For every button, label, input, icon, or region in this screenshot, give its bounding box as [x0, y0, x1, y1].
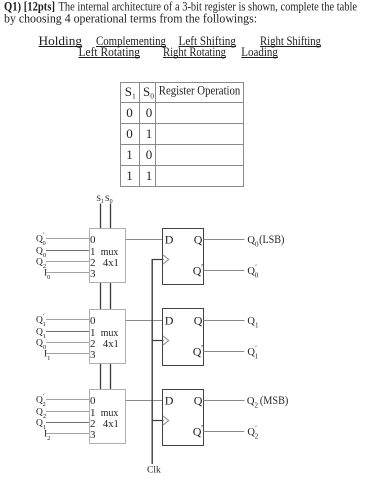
wire Q1 to U2 pin 1 — [46, 331, 90, 333]
term Left Shifting — [179, 34, 237, 48]
D flip-flop FF2 — [163, 390, 204, 446]
node output label Q0(LSB) — [247, 232, 284, 248]
clock triangle FF0 — [163, 255, 169, 264]
svg-text:Q1: Q1 — [247, 316, 259, 330]
node input label Q'0 (mux U1 pin 0) — [36, 233, 46, 247]
wire U2 out to FF1 D — [126, 320, 163, 322]
table header S0 — [143, 84, 154, 101]
svg-text:Clk: Clk — [147, 465, 161, 475]
table header S1 — [125, 84, 136, 101]
svg-text:Q′0: Q′0 — [36, 233, 46, 247]
D flip-flop FF0 — [163, 229, 204, 285]
clock triangle FF2 — [163, 416, 169, 425]
svg-text:D: D — [165, 394, 174, 408]
node input label Q'2 (mux U3 pin 0) — [36, 394, 46, 408]
node output label Qbar2 — [247, 424, 258, 441]
svg-text:Q2: Q2 — [247, 396, 259, 410]
wire Q0 to U1 pin 0 — [46, 238, 90, 240]
svg-text:Q: Q — [194, 394, 203, 408]
svg-text:Q0: Q0 — [247, 235, 259, 249]
svg-text:D: D — [165, 233, 174, 247]
node input label Q0 (mux U2 pin 2) — [36, 339, 46, 351]
wire I0 to U1 pin 3 — [46, 272, 90, 274]
node input label I0 (mux U1 pin 3) — [44, 269, 50, 281]
mux U2 4x1 (bit 1) — [90, 310, 126, 364]
svg-text:Loading: Loading — [241, 45, 278, 59]
svg-text:3: 3 — [90, 429, 96, 441]
term Right Shifting — [260, 34, 321, 48]
svg-text:S1: S1 — [125, 84, 136, 101]
clock triangle FF1 — [163, 336, 169, 345]
node output label Q1 — [247, 316, 259, 330]
node output label Q2(MSB) — [247, 393, 288, 409]
node S1 S0 labels — [96, 193, 112, 205]
wire select S1 — [100, 204, 102, 391]
svg-text:4x1: 4x1 — [103, 257, 119, 269]
wire Q0 to U2 pin 2 — [46, 342, 90, 344]
wire U1 out to FF0 D — [126, 239, 163, 241]
svg-text:3: 3 — [90, 268, 96, 280]
mux U3 4x1 (bit 2) — [90, 390, 126, 444]
node input label Q2 (mux U1 pin 2) — [36, 258, 46, 270]
wire I1 to U2 pin 3 — [46, 353, 90, 355]
mux U1 4x1 (bit 0) — [90, 229, 126, 283]
svg-text:Q′2: Q′2 — [247, 424, 258, 441]
wire Q0 to U1 pin 1 — [46, 250, 90, 252]
svg-text:I0: I0 — [44, 269, 50, 281]
node output label Qbar1 — [247, 344, 258, 361]
svg-text:3: 3 — [90, 349, 96, 361]
svg-text:Register Operation: Register Operation — [159, 82, 241, 97]
term Left Rotating — [79, 45, 141, 59]
svg-text:D: D — [165, 314, 174, 328]
svg-text:(LSB): (LSB) — [259, 232, 284, 246]
svg-text:4x1: 4x1 — [103, 418, 119, 430]
svg-text:0: 0 — [126, 126, 133, 141]
node input label Q2 (mux U3 pin 1) — [36, 408, 46, 420]
svg-text:0: 0 — [90, 315, 96, 327]
svg-text:S1: S1 — [96, 193, 104, 205]
node input label Q'1 (mux U2 pin 0) — [36, 314, 46, 328]
svg-text:Q: Q — [194, 314, 203, 328]
svg-text:Right Rotating: Right Rotating — [163, 45, 226, 59]
wire FF1 Q output — [204, 320, 245, 322]
wire Q2 to U3 pin 0 — [46, 399, 90, 401]
svg-text:0: 0 — [90, 395, 96, 407]
wire FF0 Qbar output — [204, 270, 245, 272]
term Right Rotating — [163, 45, 226, 59]
svg-text:S0: S0 — [105, 193, 113, 205]
svg-text:Left Rotating: Left Rotating — [79, 45, 141, 59]
wire U3 out to FF2 D — [126, 400, 163, 402]
wire FF2 Q output — [204, 400, 245, 402]
svg-text:I2: I2 — [44, 430, 50, 442]
svg-text:0: 0 — [146, 147, 153, 162]
table row 01 — [126, 126, 152, 141]
svg-text:(MSB): (MSB) — [260, 393, 288, 407]
table row 10 — [126, 147, 152, 162]
svg-text:Q′1: Q′1 — [36, 314, 46, 328]
svg-text:I1: I1 — [44, 350, 50, 362]
node input label I2 (mux U3 pin 3) — [44, 430, 50, 442]
wire Q2 to U1 pin 2 — [46, 261, 90, 263]
table row 00 — [126, 105, 152, 120]
svg-text:1: 1 — [146, 168, 153, 183]
svg-text:Q: Q — [194, 233, 203, 247]
wire FF1 Qbar output — [204, 351, 245, 353]
svg-text:0: 0 — [146, 105, 153, 120]
svg-text:by choosing 4 operational term: by choosing 4 operational terms from the… — [4, 11, 257, 25]
node input label Q0 (mux U1 pin 1) — [36, 247, 46, 259]
svg-text:1: 1 — [126, 147, 133, 162]
wire select S0 — [110, 204, 112, 391]
svg-text:S0: S0 — [143, 84, 154, 101]
svg-text:Holding: Holding — [39, 34, 83, 48]
term Complementing — [96, 34, 166, 48]
table row 11 — [126, 168, 152, 183]
wire Q2 to U3 pin 1 — [46, 411, 90, 413]
wire Clk net — [152, 260, 164, 465]
node input label Q1 (mux U3 pin 2) — [36, 419, 46, 431]
svg-text:Q′2: Q′2 — [36, 394, 46, 408]
svg-text:0: 0 — [126, 105, 133, 120]
wire FF0 Q output — [204, 239, 245, 241]
truth table frame — [121, 83, 244, 187]
D flip-flop FF1 — [163, 309, 204, 366]
svg-text:0: 0 — [90, 234, 96, 246]
svg-text:1: 1 — [126, 168, 133, 183]
wire Q1 to U3 pin 2 — [46, 422, 90, 424]
svg-text:Q′0: Q′0 — [247, 263, 258, 280]
node input label Q1 (mux U2 pin 1) — [36, 328, 46, 340]
wire I2 to U3 pin 3 — [46, 433, 90, 435]
node output label Qbar0 — [247, 263, 258, 280]
term Loading — [241, 45, 278, 59]
svg-text:1: 1 — [146, 126, 153, 141]
svg-text:4x1: 4x1 — [103, 338, 119, 350]
node input label I1 (mux U2 pin 3) — [44, 350, 50, 362]
wire Q1 to U2 pin 0 — [46, 319, 90, 321]
wire FF2 Qbar output — [204, 431, 245, 433]
svg-text:Q′1: Q′1 — [247, 344, 258, 361]
term Holding — [39, 34, 83, 48]
